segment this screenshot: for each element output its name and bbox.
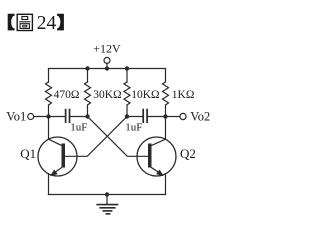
- svg-text:Vo1: Vo1: [6, 110, 26, 124]
- wire 1K bottom lead: [165, 105, 167, 117]
- svg-text:24: 24: [37, 13, 57, 34]
- resistor R1 470ohm: [46, 82, 52, 105]
- wire Q1 emitter vertical: [48, 174, 50, 195]
- wire top rail: [49, 68, 166, 70]
- CJK glyph 圖 (drawn): [17, 14, 32, 30]
- title figure caption 【圖 24】: [8, 13, 64, 34]
- wire Q2 collector vertical: [165, 117, 167, 140]
- right lenticular bracket 】: [57, 14, 64, 31]
- wire Vo1 to node A: [34, 116, 49, 118]
- transistor Q1: [38, 137, 77, 176]
- node B junction dot: [163, 114, 167, 118]
- wire 470 bottom lead: [48, 105, 50, 117]
- wire 470 top lead: [48, 69, 50, 83]
- wire cross-couple 10K to Q1 base (diagonal): [65, 117, 127, 157]
- svg-text:Vo2: Vo2: [190, 110, 210, 124]
- svg-text:+12V: +12V: [93, 41, 121, 55]
- svg-text:Q1: Q1: [20, 146, 36, 161]
- wire node A to C1: [49, 116, 66, 118]
- wire bottom rail: [49, 194, 166, 196]
- left lenticular bracket 【: [8, 14, 15, 31]
- node ground junction dot: [105, 192, 109, 196]
- terminal Vo2 circle: [180, 113, 186, 119]
- svg-text:30KΩ: 30KΩ: [93, 89, 121, 101]
- resistor R3 10Kohm: [124, 82, 130, 105]
- wire ground stub: [106, 195, 108, 205]
- transistor Q2: [137, 137, 176, 176]
- wire 30K bottom lead: [87, 105, 89, 117]
- node 10K-bottom junction dot: [125, 114, 129, 118]
- terminal Vo1 circle: [28, 114, 34, 120]
- wire Q2 emitter vertical: [165, 174, 167, 195]
- node rail-10K junction dot: [125, 66, 129, 70]
- svg-text:470Ω: 470Ω: [54, 89, 80, 101]
- node 30K-bottom junction dot: [85, 114, 89, 118]
- wire Q1 collector vertical: [48, 117, 50, 140]
- wire 30K top lead: [87, 69, 89, 83]
- capacitor C2 1uF: [143, 110, 147, 123]
- wire 1K top lead: [165, 69, 167, 83]
- svg-text:10KΩ: 10KΩ: [131, 89, 159, 101]
- resistor R4 1Kohm: [163, 82, 169, 105]
- wire 10K node to C2: [127, 116, 143, 118]
- wire +12V stub: [106, 63, 108, 68]
- wire node B to Vo2: [166, 116, 180, 118]
- svg-text:1uF: 1uF: [125, 122, 142, 134]
- resistor R2 30Kohm: [85, 82, 91, 105]
- svg-text:1uF: 1uF: [70, 122, 87, 134]
- node Vcc junction dot: [105, 66, 109, 70]
- +12V terminal circle: [104, 57, 110, 63]
- svg-text:1KΩ: 1KΩ: [172, 89, 195, 101]
- wire 10K bottom lead: [126, 105, 128, 117]
- svg-text:Q2: Q2: [180, 146, 196, 161]
- wire 10K top lead: [126, 69, 128, 83]
- ground symbol: [97, 205, 117, 214]
- wire cross-couple 30K to Q2 base (diagonal): [88, 117, 149, 157]
- wire C2 to node B: [147, 116, 165, 118]
- capacitor C1 1uF: [66, 110, 70, 123]
- node A junction dot: [46, 114, 50, 118]
- node rail-30K junction dot: [85, 66, 89, 70]
- wire C1 to 30K node: [70, 116, 88, 118]
